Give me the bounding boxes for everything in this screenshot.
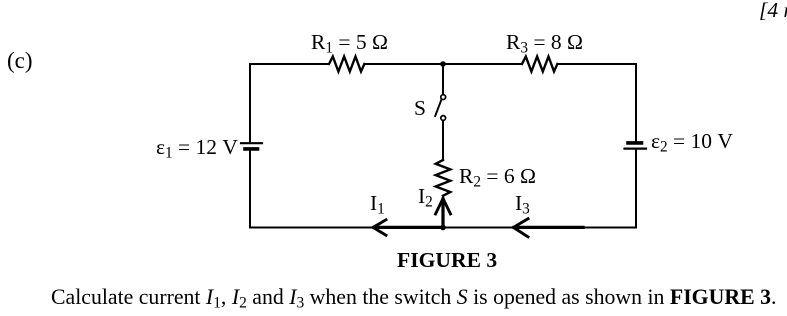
switch S label xyxy=(414,98,426,120)
caption FIGURE 3 xyxy=(397,250,497,272)
resistor R3 value label xyxy=(506,32,583,56)
node top (junction of R1, R3, switch) xyxy=(440,61,446,67)
switch S bottom contact xyxy=(441,116,446,121)
wire top-left segment xyxy=(250,63,329,65)
node bottom (junction of R2 branch and bottom wire) xyxy=(440,225,446,231)
battery E2 value label xyxy=(651,131,733,155)
current I2 label xyxy=(418,186,433,210)
current arrow I3 shaft xyxy=(514,226,583,229)
current arrow I2 shaft xyxy=(441,199,444,227)
wire top-right segment xyxy=(557,63,636,65)
resistor R2 value label xyxy=(459,166,536,190)
resistor R3 xyxy=(522,57,557,72)
wire bottom segment xyxy=(250,227,636,229)
resistor R2 xyxy=(436,160,451,196)
battery E2 short plate (top) xyxy=(628,141,642,145)
resistor R1 value label xyxy=(311,32,388,56)
current arrow I1 shaft xyxy=(374,226,443,229)
current arrow I1 head xyxy=(373,220,386,235)
marks note [4 m... (clipped at right edge) xyxy=(759,0,787,22)
question text xyxy=(51,287,776,311)
wire from R2 to bottom node xyxy=(442,196,444,228)
battery E1 value label xyxy=(156,137,238,161)
switch S blade (open) xyxy=(435,100,441,116)
resistor R1 xyxy=(329,57,364,72)
current I1 label xyxy=(370,193,385,217)
wire left side upper xyxy=(249,64,251,142)
wire from top node to switch xyxy=(442,64,444,94)
wire right side upper xyxy=(635,64,637,141)
current arrow I3 head xyxy=(513,219,528,237)
current arrow I2 head xyxy=(436,199,451,215)
wire top-middle segment xyxy=(364,63,522,65)
battery E1 long plate (top) xyxy=(241,142,262,144)
switch S top contact xyxy=(441,95,446,100)
current I3 label xyxy=(515,193,530,217)
wire right side lower xyxy=(635,150,637,228)
label (c) xyxy=(7,49,33,72)
wire left side lower xyxy=(249,150,251,227)
wire from switch to R2 xyxy=(442,121,444,160)
battery E2 long plate (bottom) xyxy=(625,148,647,150)
battery E1 short plate (bottom) xyxy=(245,147,258,151)
